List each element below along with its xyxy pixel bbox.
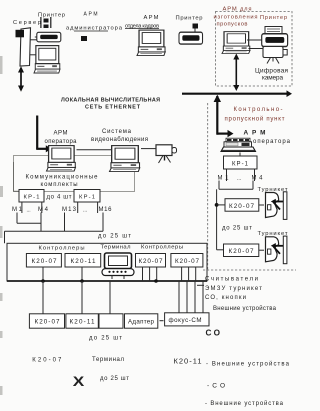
svg-text:Внешние устройства: Внешние устройства [213,305,277,312]
svg-text:Адаптер: Адаптер [128,318,155,325]
computer АРМ администратора [34,46,60,73]
box КР-1 (КПП) [224,156,258,169]
double arrow camera group to ethernet [233,54,239,92]
svg-text:до 4 шт: до 4 шт [47,195,72,201]
svg-text:К20-07: К20-07 [32,258,57,265]
computer АРМ оператора [47,146,76,171]
svg-text:АРМ: АРМ [84,12,98,18]
svg-text:К20-07: К20-07 [229,203,254,210]
svg-text:СО: СО [206,328,221,337]
camera Ц1 [263,47,283,58]
svg-text:СЕТЬ ETHERNET: СЕТЬ ETHERNET [85,105,141,111]
svg-text:М13: М13 [62,207,77,213]
computer АРМ изготовления [222,32,250,54]
svg-text:К20-11: К20-11 [71,258,96,265]
svg-text:камера: камера [262,74,283,81]
junction dots [41,279,45,283]
svg-text:ЛОКАЛЬНАЯ ВЫЧИСЛИТЕЛЬНАЯ: ЛОКАЛЬНАЯ ВЫЧИСЛИТЕЛЬНАЯ [61,97,160,103]
svg-text:до 25 шт: до 25 шт [222,226,252,232]
node dot [193,24,199,29]
svg-text:...: ... [237,176,241,182]
wire to turnstile 1 [259,204,264,206]
svg-text:ЭМЗУ турникет: ЭМЗУ турникет [205,286,262,292]
svg-text:К20-07: К20-07 [175,258,199,265]
svg-text:Система: Система [102,129,132,135]
svg-text:видеонаблюдения: видеонаблюдения [91,137,148,143]
svg-text:- Внешние устройства: - Внешние устройства [206,360,290,367]
svg-text:оператора: оператора [253,139,291,145]
wire server to monitor [29,54,37,56]
svg-text:до 25 шт: до 25 шт [100,376,129,382]
double arrow server to ethernet label [18,66,24,91]
svg-text:...: ... [83,208,87,214]
turnstile 2 [266,236,287,264]
svg-text:Принтер: Принтер [38,13,65,19]
turnstile 1 [266,192,287,220]
svg-text:до 25 шт: до 25 шт [89,336,122,342]
box К20-07 (4th) [171,254,203,268]
node dot under администратора [81,36,87,41]
wires КР-1 to М ports [21,202,23,213]
svg-text:КР-1: КР-1 [24,195,40,201]
svg-text:оператора: оператора [45,139,78,145]
svg-text:АРМ: АРМ [144,15,159,21]
thick drop with up arrow into checkpoint [216,96,218,135]
box КР-1 #1 [19,190,44,203]
wire to turnstile 2 [259,249,264,251]
printer P2 [179,32,203,44]
dash [160,320,164,322]
svg-text:К20-07: К20-07 [229,248,254,255]
svg-text:КР-1: КР-1 [79,195,95,201]
svg-text:Контрольно-: Контрольно- [234,107,283,113]
svg-text:Коммуникационные: Коммуникационные [26,175,99,181]
printer P3 with tray [265,27,282,35]
wire dot to printer [194,29,196,33]
svg-text:АРМ для: АРМ для [223,7,252,13]
svg-text:пропускной пункт: пропускной пункт [225,115,285,122]
svg-text:СО, кнопки: СО, кнопки [205,295,246,301]
svg-text:М16: М16 [99,207,113,213]
gray container communication units [14,156,135,192]
box К20-07 [26,254,61,268]
svg-text:КР-1: КР-1 [232,161,249,167]
svg-text:до 25 шт: до 25 шт [98,234,131,240]
box К20-07 (КПП 2) [224,244,259,257]
svg-text:X: X [73,373,85,389]
computer видеонаблюдение [110,146,140,172]
wires М to line bus [16,213,18,224]
wire to video system [77,149,114,151]
arrow right to КПП АРМ [217,133,228,135]
svg-text:...: ... [27,208,31,214]
wires bus down to adapters [42,281,44,314]
svg-text:К20-07: К20-07 [35,318,60,325]
svg-text:А Р М: А Р М [244,130,266,137]
wires КР-1 to М [226,169,228,181]
svg-text:К20-07: К20-07 [139,258,163,265]
box К20-07 (3rd) [136,254,166,268]
box фокус-СМ [165,313,209,326]
camera Ц2 [156,145,172,156]
svg-text:К20-11: К20-11 [174,357,202,366]
svg-text:Терминал: Терминал [101,245,131,251]
server tower [20,28,31,66]
svg-text:пропусков: пропусков [217,22,248,28]
svg-text:изготовления: изготовления [214,15,258,21]
wire into К20-07 #2 [217,249,224,251]
ethernet bus thick line [182,93,288,95]
computer АРМ отдела кадров [137,30,165,55]
controllers line box [7,243,207,281]
wires controllers to bus [42,267,44,281]
svg-text:Принтер: Принтер [176,16,203,22]
wires М down to line [218,181,220,190]
svg-text:Контроллеры: Контроллеры [141,245,183,251]
svg-text:Цифровая: Цифровая [255,67,289,74]
cell К20-07 [29,314,64,328]
cell Адаптер [125,314,158,328]
cell empty [99,314,123,328]
junction [215,203,219,207]
laptop КПП [226,138,250,142]
L arrow down to АРМ оператора [36,116,38,149]
dashed box pass-office [216,12,293,87]
scan edge artifacts [0,56,3,395]
wire server to printer [29,39,37,41]
svg-text:К20-11: К20-11 [70,318,95,325]
terminal laptop [105,253,132,269]
small marks under Принтер label [40,17,51,28]
svg-text:Контроллеры: Контроллеры [39,246,85,252]
svg-text:- Внешние устройства: - Внешние устройства [205,400,284,407]
printer P1 [37,32,61,42]
box КР-1 #4 [74,190,100,203]
svg-text:Считыватели: Считыватели [205,277,258,283]
svg-text:Терминал: Терминал [92,357,124,363]
svg-text:администратора: администратора [66,26,123,32]
svg-text:фокус-СМ: фокус-СМ [169,317,202,324]
dashed boundary КПП [207,103,209,270]
wire laptop to КР-1 [239,153,241,157]
svg-text:комплекты: комплекты [41,182,78,188]
cell К20-11 [66,314,98,328]
box К20-11 [65,254,101,268]
svg-text:АРМ: АРМ [54,131,68,137]
wire computer to camera [249,48,264,50]
wire to camera [141,148,156,150]
svg-text:Принтер: Принтер [260,15,287,21]
box К20-07 (КПП 1) [225,199,259,212]
